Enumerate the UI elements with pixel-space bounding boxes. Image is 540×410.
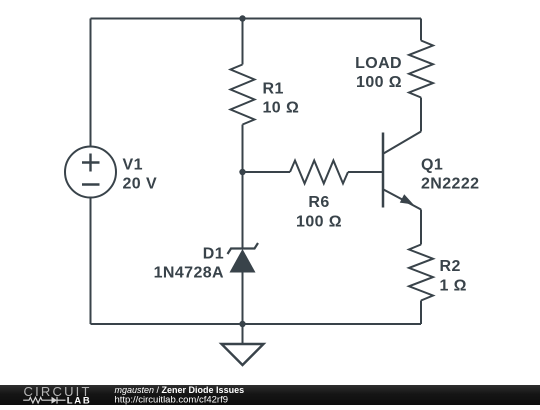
wire R6 to Q1 base [348, 171, 382, 173]
svg-text:D1: D1 [203, 246, 224, 263]
junction top rail / R1 [239, 15, 245, 21]
wire D1 anode to bottom rail [242, 273, 244, 325]
svg-text:10 Ω: 10 Ω [263, 100, 300, 117]
svg-text:R6: R6 [308, 194, 329, 211]
resistor R2 [409, 245, 433, 301]
svg-text:100 Ω: 100 Ω [296, 214, 342, 231]
wire R2 to bottom rail [420, 301, 422, 325]
transistor Q1 [383, 132, 421, 210]
wire bottom rail [91, 323, 422, 325]
svg-text:LOAD: LOAD [355, 55, 402, 72]
svg-text:R1: R1 [263, 81, 284, 98]
ground [222, 324, 264, 365]
svg-text:R2: R2 [440, 258, 461, 275]
wire V1 bottom to bottom rail [90, 198, 92, 325]
svg-text:100 Ω: 100 Ω [356, 74, 402, 91]
wire node A to R6 [243, 171, 291, 173]
svg-text:2N2222: 2N2222 [421, 176, 479, 193]
svg-text:20 V: 20 V [123, 176, 158, 193]
svg-text:mgausten / Zener Diode Issues: mgausten / Zener Diode Issues [115, 385, 245, 395]
svg-text:Q1: Q1 [421, 157, 443, 174]
wire node A to D1 cathode [242, 172, 244, 248]
zener diode D1 [228, 243, 259, 273]
wire R1 to node A [242, 125, 244, 173]
wire Q1 emitter to R2 [420, 210, 422, 245]
wire LOAD to Q1 collector [420, 98, 422, 132]
voltage source V1 [65, 147, 116, 198]
wire left vertical (top rail to V1) [90, 19, 92, 147]
wire top rail to LOAD [420, 19, 422, 41]
wire top rail junction to R1 [242, 19, 244, 65]
resistor LOAD [409, 41, 433, 98]
svg-text:V1: V1 [123, 157, 143, 174]
junction bottom rail / ground [239, 321, 245, 327]
junction node A [239, 169, 245, 175]
svg-text:LAB: LAB [67, 396, 92, 405]
svg-text:http://circuitlab.com/cf42rf9: http://circuitlab.com/cf42rf9 [115, 395, 229, 406]
resistor R1 [231, 65, 255, 125]
wire top rail [91, 18, 422, 20]
resistor R6 [290, 161, 348, 184]
svg-text:1 Ω: 1 Ω [440, 278, 467, 295]
svg-text:1N4728A: 1N4728A [154, 265, 224, 282]
